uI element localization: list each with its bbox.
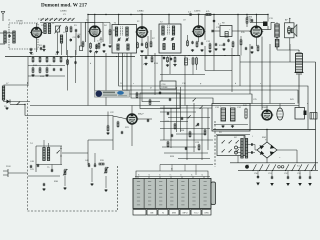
cap lb d xyxy=(51,169,53,171)
wire V1 top xyxy=(36,23,38,28)
wire x268 v xyxy=(267,15,269,22)
wire lb top xyxy=(36,145,62,147)
bridge diode 2 xyxy=(270,145,275,149)
T1 secondary trim cap xyxy=(126,38,128,40)
wire speaker top xyxy=(289,19,291,23)
wire column x56 down xyxy=(57,32,59,55)
gnd marks bus xyxy=(29,56,30,57)
tuning extra cap x44 xyxy=(43,45,45,47)
vertical drop x185 xyxy=(184,56,186,106)
wire speaker bottom xyxy=(277,49,299,51)
svg-text:GPD: GPD xyxy=(204,213,209,215)
gnd triangle c xyxy=(286,183,290,186)
wire V5 plate right xyxy=(261,29,271,31)
T2 secondary coil xyxy=(172,26,174,35)
diode output wire xyxy=(10,104,25,106)
wire left mid a xyxy=(4,84,29,86)
svg-text:TCO: TCO xyxy=(194,213,199,215)
antenna symbol top left xyxy=(2,14,4,21)
tube V2 mixer xyxy=(90,26,100,36)
antenna coil L1 xyxy=(4,31,6,43)
rectifier V8 oval xyxy=(277,108,283,120)
wire x151 xyxy=(150,30,152,42)
bus y129 right xyxy=(213,129,316,131)
tuning coil a xyxy=(44,24,46,34)
wire left coil bottom xyxy=(3,100,5,102)
pot x105 xyxy=(105,168,107,173)
wire V5 down xyxy=(255,37,257,46)
cap x252 xyxy=(251,19,253,21)
wire V5 top xyxy=(255,15,257,27)
wire bus y103 right xyxy=(250,103,295,105)
audio mesh horizontals xyxy=(160,111,196,113)
capacitor C1 xyxy=(8,35,10,37)
speaker voice coil oval xyxy=(288,27,291,35)
mains connector circles xyxy=(235,146,238,149)
small box far right xyxy=(310,113,317,120)
cap row d xyxy=(299,176,301,178)
resistor R7 x151 xyxy=(150,42,152,47)
capacitor C5 below V2 xyxy=(95,44,97,46)
T2 bottom winding a xyxy=(163,44,165,50)
gnd V3 xyxy=(141,50,143,51)
wire V4 top xyxy=(198,15,200,26)
dashed shield box antenna xyxy=(9,23,38,49)
jack circles xyxy=(278,166,281,169)
wire x247 xyxy=(246,15,248,19)
cap C5b xyxy=(103,44,105,46)
cap x76 xyxy=(75,29,77,31)
vertical x36 lb xyxy=(35,146,37,172)
wire mains xyxy=(8,172,28,174)
capacitor C10 xyxy=(223,43,225,45)
wire bundle L1 from IF1 xyxy=(119,53,308,130)
wire V6 right xyxy=(137,118,152,120)
detector extra gnd xyxy=(209,50,211,51)
extra gnd x110 xyxy=(109,45,111,46)
audio res c xyxy=(174,124,176,129)
AVC resistor cluster xyxy=(32,58,34,62)
mains plug symbol xyxy=(3,169,8,177)
bus y70 right xyxy=(205,70,232,72)
resistor R8 below V4 xyxy=(187,41,189,46)
cap below V5 a xyxy=(245,47,247,49)
cap right of V6 xyxy=(147,119,149,121)
vertical drop x155 xyxy=(154,53,156,95)
vertical drop x162 xyxy=(161,56,163,82)
T1 bottom winding b xyxy=(127,44,129,50)
wire pot lb down xyxy=(64,176,66,186)
gnd cluster xyxy=(32,74,34,75)
series cap on bus xyxy=(189,13,191,15)
dots above caps xyxy=(88,163,89,164)
wire cluster mid xyxy=(28,65,65,67)
wire bridge out top xyxy=(266,130,268,143)
capacitor C8 below V4 xyxy=(191,41,193,43)
extra res mid x152 xyxy=(151,57,153,62)
tube V4 detector xyxy=(193,26,204,37)
ground bus top mid xyxy=(140,55,240,57)
keyboard table body xyxy=(133,179,211,209)
vertical drop x106 xyxy=(105,53,107,106)
switch diagonals lower xyxy=(222,140,225,143)
wire lb connect xyxy=(62,152,88,154)
cap below V5 b xyxy=(251,46,253,48)
keyboard bracket xyxy=(136,171,208,179)
extra gnd mid x146 xyxy=(145,63,147,64)
gnd triangle a xyxy=(256,183,260,186)
wire bundle L3 xyxy=(127,53,252,104)
gnd V2 xyxy=(96,51,98,52)
vertical x67 pair xyxy=(67,50,69,91)
extra wire x241 xyxy=(240,36,242,40)
keyboard stubs xyxy=(137,177,139,179)
box D5GM xyxy=(160,81,176,89)
antenna input wires xyxy=(0,32,14,34)
tuning extra gnd xyxy=(43,49,45,50)
vertical x95 lb xyxy=(94,153,96,164)
wire y105 long xyxy=(30,105,299,107)
wire x108 down2 xyxy=(105,176,107,188)
svg-text:ln: ln xyxy=(159,175,160,177)
wire bundle L5 lower xyxy=(142,56,160,102)
wire x25 down xyxy=(24,105,26,116)
wire T1 top to bus xyxy=(118,15,120,26)
gnd x92 xyxy=(91,183,93,184)
filter cap can C30 xyxy=(296,54,303,73)
cap mid a3 xyxy=(170,58,172,60)
res in loop xyxy=(149,100,151,104)
T2 secondary trim cap xyxy=(171,38,173,40)
bridge diode 1 xyxy=(260,145,265,149)
detector extra cap b xyxy=(215,43,217,45)
res mid a4 xyxy=(174,58,176,62)
wire x76 xyxy=(75,32,77,55)
switch contact lb xyxy=(57,150,60,153)
trimmer arrow xyxy=(55,25,62,34)
psu box inner wire xyxy=(214,124,248,126)
keyboard label row above xyxy=(135,176,210,178)
resistor R2b xyxy=(70,27,72,32)
svg-text:ln: ln xyxy=(170,175,171,177)
wire x148 down xyxy=(147,36,149,56)
cap C9 xyxy=(201,42,203,44)
vertical drop x262 xyxy=(261,37,263,111)
resistor R3 below V2 xyxy=(90,44,92,49)
cap x75 xyxy=(74,61,76,63)
extra res x241 top xyxy=(240,40,242,45)
resistor R21 xyxy=(107,126,109,131)
right edge bus xyxy=(315,62,317,170)
cap below V1 b xyxy=(40,47,42,49)
vertical drop x95 xyxy=(94,52,96,93)
svg-text:35W4: 35W4 xyxy=(262,107,268,109)
T1 primary trim cap xyxy=(118,38,120,40)
left bottom transformer coil a xyxy=(43,148,45,161)
audio switch contacts xyxy=(193,98,196,101)
keyboard wires up xyxy=(159,165,161,172)
filter electrolytic a xyxy=(221,108,226,121)
T2 bottom winding b xyxy=(172,44,174,50)
antenna coil L2 xyxy=(13,31,15,43)
wire lb up xyxy=(43,140,45,148)
line-antenna coil far left xyxy=(2,86,4,100)
wire column x66 down xyxy=(66,33,68,55)
trimmer small x81 xyxy=(80,46,83,51)
can base xyxy=(295,72,304,74)
IF transformer T1 box xyxy=(112,25,137,54)
wire y22 tuning row xyxy=(40,22,86,24)
gnd triangle b xyxy=(270,183,274,186)
wire top right y22 xyxy=(250,22,263,24)
IF transformer T2 box xyxy=(159,24,181,53)
wire diode box to V5 xyxy=(238,30,251,32)
keyboard cell marks xyxy=(137,181,140,183)
component in power box xyxy=(304,111,307,116)
cap below V1 xyxy=(30,48,32,50)
T1 core dashes xyxy=(120,27,122,37)
switch contact column xyxy=(253,164,256,170)
extra marks top bus xyxy=(105,14,106,15)
audio cap g xyxy=(185,147,187,149)
wire V2 cathode down xyxy=(94,36,96,42)
keyboard column lines xyxy=(143,179,145,209)
wire loop below watermark xyxy=(140,93,180,109)
ground bus top section xyxy=(5,56,135,58)
gnd triangle d xyxy=(298,183,302,186)
wire caps to bus b xyxy=(257,171,259,177)
coil L3 xyxy=(60,35,62,43)
power transformer primary winding xyxy=(241,139,243,159)
T2 primary coil xyxy=(162,26,164,35)
bottom bus upper xyxy=(230,162,318,164)
capacitor C6 below V3 xyxy=(141,43,143,45)
vertical drop x232 xyxy=(231,48,233,92)
wire cluster bottom xyxy=(28,75,65,77)
cap on x214 vertical xyxy=(213,20,215,22)
output transformer primary xyxy=(275,24,279,37)
wire lb row y176 xyxy=(28,175,60,177)
frame around tube V2 xyxy=(85,23,95,43)
svg-text:ln: ln xyxy=(202,175,203,177)
svg-text:220V: 220V xyxy=(6,166,11,168)
cap cluster mid a xyxy=(163,57,165,59)
wire V6 down xyxy=(131,124,133,146)
wire y140 ext xyxy=(88,139,113,141)
vertical drop x290 xyxy=(289,44,291,62)
audio mesh verticals xyxy=(163,106,165,141)
keyboard label cells xyxy=(133,210,146,216)
svg-text:c: c xyxy=(133,83,134,85)
coupling cap black square xyxy=(263,22,268,27)
wire y108 seg xyxy=(160,107,212,109)
gnd left diode xyxy=(6,107,8,108)
psu filter box xyxy=(212,104,250,132)
gnd lb c xyxy=(43,188,45,189)
svg-text:12BA6: 12BA6 xyxy=(137,10,144,13)
extra cap mid x146 top xyxy=(145,56,147,58)
wire V6 up xyxy=(131,106,133,115)
switch box lower xyxy=(217,136,245,156)
wire T2 top xyxy=(168,15,170,25)
filter electrolytic b xyxy=(231,108,236,121)
svg-text:ln: ln xyxy=(191,175,192,177)
detector area extra res a xyxy=(209,44,211,49)
cap lb b xyxy=(37,164,39,166)
wire V3 top xyxy=(141,15,143,28)
resistor below V5 xyxy=(257,46,259,51)
gnd triangle e xyxy=(308,183,312,186)
wire x88 down xyxy=(87,15,89,57)
capacitor C3 xyxy=(70,39,72,41)
tuning coil b xyxy=(48,24,50,34)
svg-text:ln: ln xyxy=(149,175,150,177)
gnd C10 xyxy=(223,48,225,49)
bottom bus lower xyxy=(238,170,318,172)
gnd V5 xyxy=(251,51,253,52)
audio res f xyxy=(167,142,169,147)
resistor R11 x247 xyxy=(246,18,248,23)
resistor R10 xyxy=(232,42,234,47)
svg-text:ln: ln xyxy=(138,175,139,177)
svg-text:12AT6: 12AT6 xyxy=(194,10,201,13)
cap row c xyxy=(287,176,289,178)
series resistor on bus xyxy=(206,14,211,16)
svg-text:12DB6: 12DB6 xyxy=(16,21,23,23)
wire OT mid gap xyxy=(276,37,278,39)
resistor R6 below V3 xyxy=(146,43,148,48)
wire V2 top to bus xyxy=(94,15,96,27)
res mid a2 xyxy=(167,58,169,62)
extra res x83 xyxy=(82,42,84,46)
wire lb bottom xyxy=(36,164,62,166)
filter resistor xyxy=(245,109,247,118)
resistor R9 below V4 xyxy=(196,42,198,47)
speaker glyph box xyxy=(291,28,293,33)
wire cluster top xyxy=(28,56,65,58)
diode load box xyxy=(220,26,232,37)
elec in diode box xyxy=(225,32,228,38)
T2 primary trim cap xyxy=(163,38,165,40)
res mid x193 xyxy=(192,58,194,64)
vertical drop x170 xyxy=(169,56,171,75)
cap lb a xyxy=(30,165,32,167)
bus y74 seg xyxy=(160,74,205,76)
wire x108 v xyxy=(107,112,109,127)
dashed chassis bottom xyxy=(28,210,118,212)
switch row dashed xyxy=(38,18,74,20)
vertical pair x176 xyxy=(176,87,178,132)
dashed chassis vertical left xyxy=(27,82,29,211)
speaker frame xyxy=(285,23,295,38)
power transformer secondary winding xyxy=(245,139,247,159)
cap on loop edge xyxy=(159,91,161,93)
audio res h xyxy=(198,145,200,150)
power box right xyxy=(295,108,305,120)
T1 secondary coil xyxy=(126,27,128,36)
gnd mid xyxy=(167,64,169,65)
wire OT top entry xyxy=(276,22,278,24)
extra res top x110 xyxy=(109,30,111,35)
switch contacts top-left xyxy=(41,18,44,21)
wire box left xyxy=(214,30,220,32)
gnd x108 xyxy=(107,132,109,133)
audio cap i xyxy=(171,134,173,136)
audio cap b xyxy=(181,117,183,119)
contact on wire xyxy=(17,102,20,105)
extra cap x228 xyxy=(227,39,229,41)
cap row a xyxy=(257,176,259,178)
res x67 xyxy=(67,60,69,64)
audio res d xyxy=(189,132,191,137)
diode D1 left xyxy=(7,100,11,104)
wire down x238b xyxy=(237,156,239,163)
gnd below V1 xyxy=(30,52,32,53)
vertical drop x88b xyxy=(87,57,89,106)
small res mid w1 xyxy=(136,93,138,97)
res_h x100 xyxy=(99,163,104,165)
bridge diode 4 xyxy=(270,151,275,155)
T2 core dashes xyxy=(166,26,168,36)
tube V6 AF amp xyxy=(127,114,137,124)
svg-text:6BQ7: 6BQ7 xyxy=(138,114,144,116)
tube V1 converter xyxy=(32,28,42,38)
wire x148 to audio xyxy=(148,118,160,120)
dashed chassis vertical right xyxy=(117,166,119,211)
gnd V4a xyxy=(192,49,194,50)
wire top B+ bus xyxy=(88,14,268,16)
res mid x196 xyxy=(196,58,198,64)
wire can down xyxy=(298,75,300,108)
wire cluster left drop xyxy=(27,57,29,87)
keyboard right tab xyxy=(211,182,216,205)
svg-text:D5GM: D5GM xyxy=(162,87,168,89)
vertical drop x270 xyxy=(269,44,271,104)
cap row b xyxy=(271,176,273,178)
vertical drop x250 xyxy=(249,44,251,94)
cap cluster a xyxy=(53,68,55,70)
wire V3 down xyxy=(141,37,143,44)
wire x187 v xyxy=(187,35,189,41)
wire bridge out right xyxy=(277,149,297,151)
svg-text:MPU: MPU xyxy=(183,213,188,215)
gnd pot lb xyxy=(64,187,66,188)
cap lb c xyxy=(43,183,45,185)
OT junction dots xyxy=(276,37,277,38)
vertical x101 below V2 xyxy=(100,37,102,43)
wire x238 v xyxy=(237,15,239,56)
svg-text:12BE6: 12BE6 xyxy=(60,11,67,13)
tube V3 IF amplifier xyxy=(137,27,147,37)
pilot lamp xyxy=(245,165,249,169)
wire box right xyxy=(232,30,238,32)
junction dot x25 xyxy=(24,104,25,105)
wire left mid b xyxy=(10,101,30,103)
wire OT bottom stub xyxy=(276,47,278,50)
left bottom transformer coil b xyxy=(47,148,49,161)
wire lb x52 xyxy=(51,165,53,171)
cap in loop xyxy=(169,98,171,100)
svg-text:ln: ln xyxy=(180,175,181,177)
pair caps x88-96 xyxy=(88,164,90,166)
vertical x61 lb xyxy=(60,146,62,165)
bridge diode 3 xyxy=(260,151,264,155)
extra cap x78 xyxy=(77,35,79,37)
wire V4 down xyxy=(198,35,200,42)
wire caps to bridge xyxy=(253,144,255,146)
tube V5 output xyxy=(251,26,262,37)
wire y115 to audio xyxy=(25,115,113,117)
